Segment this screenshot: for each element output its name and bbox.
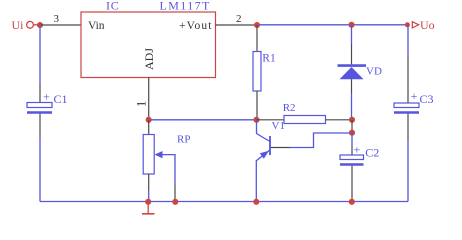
diode VD triangle — [340, 67, 364, 79]
svg-text:RP: RP — [177, 134, 190, 146]
svg-text:C1: C1 — [54, 92, 68, 106]
wire Uo down — [407, 25, 409, 57]
transistor V1 bar — [269, 136, 271, 155]
wire top rail — [257, 24, 408, 26]
potentiometer RP body — [143, 135, 154, 175]
wire base to node — [290, 133, 350, 148]
resistor R1 top pin — [256, 25, 258, 52]
svg-text:VD: VD — [366, 65, 382, 77]
svg-text:2: 2 — [236, 13, 242, 25]
potentiometer RP bottom pin — [148, 174, 150, 190]
svg-text:R2: R2 — [283, 102, 296, 114]
potentiometer RP wiper wire lower — [174, 185, 176, 202]
capacitor C2 top pin — [351, 146, 353, 155]
svg-text:+Vout: +Vout — [179, 20, 213, 32]
svg-text:C2: C2 — [365, 146, 379, 160]
svg-text:+: + — [43, 89, 50, 103]
wire node to C2 — [351, 133, 353, 146]
node RP bottom junction — [145, 199, 151, 205]
node R1 bottom junction — [253, 117, 259, 123]
node pin2 junction — [254, 22, 260, 28]
potentiometer RP wiper wire — [162, 155, 176, 185]
svg-text:R1: R1 — [262, 53, 276, 65]
svg-text:C3: C3 — [420, 92, 434, 106]
svg-text:IC: IC — [106, 0, 120, 13]
capacitor C1 top plate — [27, 103, 52, 108]
capacitor C1 top pin — [39, 84, 41, 103]
wire VD to R2 node — [351, 93, 353, 120]
capacitor C1 bottom plate — [27, 111, 52, 113]
node C2 junction — [349, 199, 355, 205]
wire ADJ to R1 — [149, 119, 257, 121]
node Ui junction — [37, 22, 43, 28]
resistor R2 body — [284, 116, 326, 124]
node VD top junction — [348, 22, 354, 28]
transistor V1 base pin — [271, 147, 290, 149]
diode VD top pin — [351, 44, 353, 64]
capacitor C2 bottom plate — [340, 163, 364, 165]
capacitor C3 top plate — [394, 103, 419, 108]
ground bar — [142, 213, 155, 215]
potentiometer RP top pin — [148, 120, 150, 135]
resistor R1 body — [253, 52, 261, 92]
wire RP to rail — [148, 190, 150, 202]
node emitter junction — [253, 199, 259, 205]
diode VD cathode bar — [338, 64, 367, 67]
wire C3 to rail — [407, 140, 409, 202]
capacitor C2 bottom pin — [351, 166, 353, 202]
svg-text:LM117T: LM117T — [160, 0, 211, 13]
wire bottom rail — [40, 201, 408, 203]
transistor V1 emitter — [256, 150, 269, 201]
transistor V1 collector wire — [257, 120, 271, 142]
terminal Ui circle — [27, 21, 34, 28]
capacitor C3 bottom plate — [394, 111, 419, 113]
svg-text:1: 1 — [134, 101, 148, 107]
wire rail to VD — [351, 25, 353, 44]
node Uo junction — [405, 22, 410, 27]
node R2 right junction — [349, 117, 355, 123]
svg-text:+: + — [354, 143, 361, 157]
capacitor C3 top pin — [407, 57, 409, 103]
resistor R1 bottom pin — [256, 91, 258, 120]
svg-text:+: + — [411, 89, 418, 103]
wire between junctions — [351, 120, 353, 133]
capacitor C2 top plate — [340, 155, 364, 160]
node wiper junction — [172, 199, 178, 205]
svg-text:ADJ: ADJ — [142, 48, 156, 70]
potentiometer RP wiper arrow — [155, 151, 163, 158]
capacitor C1 bottom pin — [39, 114, 41, 138]
svg-text:Uo: Uo — [420, 18, 435, 32]
transistor V1 emitter arrow — [260, 151, 269, 159]
wire C1 upper — [39, 26, 41, 84]
ground stem — [147, 202, 149, 214]
svg-text:Vin: Vin — [88, 20, 105, 32]
wire C1 lower — [39, 138, 41, 202]
node base junction — [349, 130, 355, 136]
wire pin3 — [41, 24, 81, 26]
terminal Ui stub — [34, 24, 38, 26]
node ADJ junction — [146, 117, 152, 123]
pin ADJ wire — [148, 78, 150, 121]
terminal Uo triangle — [412, 22, 418, 28]
svg-text:Ui: Ui — [12, 18, 25, 32]
resistor R2 right pin — [326, 119, 353, 121]
svg-text:3: 3 — [54, 13, 60, 25]
resistor R2 left pin — [257, 119, 285, 121]
svg-text:V1: V1 — [272, 120, 285, 132]
diode VD bottom pin — [351, 79, 353, 93]
op-amp U1 IC box — [81, 12, 216, 78]
capacitor C3 bottom pin — [407, 114, 409, 140]
wire pin2 — [216, 24, 258, 26]
